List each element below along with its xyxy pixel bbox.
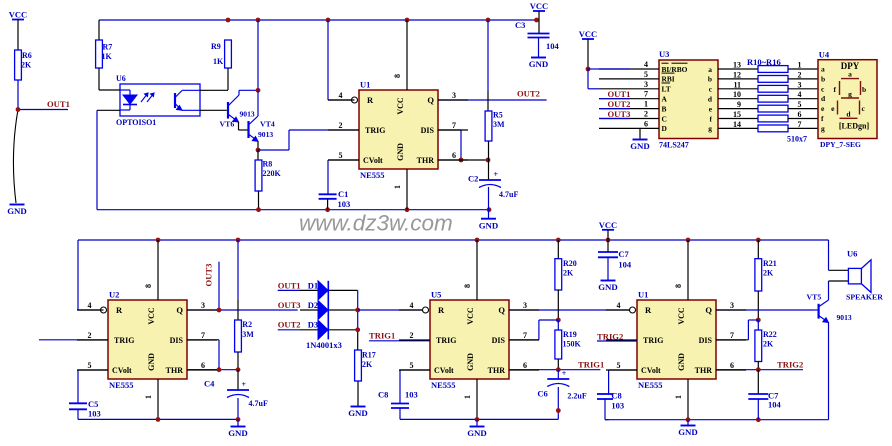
svg-text:C8: C8 [611,390,621,400]
svg-text:12: 12 [733,70,741,79]
svg-text:2K: 2K [763,269,774,278]
svg-text:7: 7 [730,331,734,340]
svg-text:D2: D2 [308,300,318,310]
svg-text:b: b [708,75,712,84]
svg-text:TRIG2: TRIG2 [777,359,803,369]
svg-text:+: + [494,170,499,179]
svg-text:OUT1: OUT1 [608,89,631,99]
svg-text:2: 2 [644,110,648,119]
svg-text:3: 3 [523,301,527,310]
svg-text:TRIG1: TRIG1 [369,331,395,341]
svg-text:VCC: VCC [147,307,156,325]
svg-text:2K: 2K [563,269,574,278]
svg-text:2: 2 [339,121,343,130]
svg-text:DIS: DIS [699,336,713,345]
svg-text:4: 4 [410,301,414,310]
svg-text:R: R [645,305,652,315]
svg-text:GND: GND [147,353,156,371]
svg-text:103: 103 [338,199,351,209]
svg-text:VT6: VT6 [220,120,235,129]
svg-text:7: 7 [644,90,648,99]
svg-text:5: 5 [644,70,648,79]
svg-text:A: A [662,95,668,104]
svg-text:10: 10 [733,90,741,99]
svg-text:5: 5 [88,361,92,370]
svg-text:R17: R17 [362,351,376,360]
svg-text:+: + [242,380,247,389]
svg-text:8: 8 [144,284,153,288]
svg-text:5: 5 [798,100,802,109]
svg-text:GND: GND [466,353,475,371]
svg-text:OPTOISO1: OPTOISO1 [116,118,156,127]
svg-text:510x7: 510x7 [787,135,807,144]
svg-text:3M: 3M [242,330,254,339]
svg-text:7: 7 [452,121,456,130]
svg-text:15: 15 [733,110,741,119]
svg-text:1: 1 [393,185,402,189]
svg-text:LT: LT [662,85,671,94]
svg-text:VCC: VCC [677,307,686,325]
svg-text:OUT2: OUT2 [278,320,301,330]
svg-text:THR: THR [166,366,184,375]
svg-text:1N4001x3: 1N4001x3 [306,340,342,350]
svg-text:7: 7 [798,120,802,129]
svg-text:2K: 2K [362,360,373,369]
svg-text:R22: R22 [763,330,777,339]
svg-text:DIS: DIS [421,126,435,135]
svg-text:TRIG1: TRIG1 [578,359,604,369]
svg-text:Q: Q [498,305,505,315]
svg-text:103: 103 [405,390,418,400]
svg-text:6: 6 [201,361,205,370]
svg-text:5: 5 [410,361,414,370]
svg-text:THR: THR [695,366,713,375]
svg-text:VCC: VCC [9,10,27,20]
svg-text:[LEDgn]: [LEDgn] [839,122,870,131]
svg-text:1: 1 [463,395,472,399]
svg-text:OUT1: OUT1 [47,99,70,109]
svg-text:R: R [367,95,374,105]
svg-text:Q: Q [427,95,434,105]
svg-text:R: R [438,305,445,315]
svg-text:C2: C2 [468,174,478,184]
svg-text:3: 3 [644,80,648,89]
svg-text:1K: 1K [102,52,113,61]
svg-text:D: D [662,124,667,133]
svg-text:R20: R20 [563,259,577,268]
svg-text:NE555: NE555 [638,380,663,390]
svg-text:OUT2: OUT2 [608,99,631,109]
svg-text:150K: 150K [563,340,582,349]
svg-text:OUT1: OUT1 [278,280,301,290]
svg-text:4: 4 [88,301,92,310]
svg-text:a: a [708,65,712,74]
svg-text:1: 1 [644,100,648,109]
svg-text:8: 8 [674,284,683,288]
svg-text:D1: D1 [308,280,318,290]
svg-text:R5: R5 [493,111,503,120]
svg-text:7: 7 [201,331,205,340]
svg-text:GND: GND [348,408,368,418]
svg-text:104: 104 [546,41,560,51]
svg-text:1: 1 [674,395,683,399]
svg-text:9013: 9013 [837,313,852,322]
svg-text:C8: C8 [378,390,388,400]
svg-text:THR: THR [417,156,435,165]
svg-text:C6: C6 [537,389,547,399]
svg-text:VCC: VCC [530,1,548,11]
svg-text:DIS: DIS [170,336,184,345]
svg-text:C5: C5 [88,399,98,409]
svg-text:4: 4 [339,91,343,100]
svg-text:U5: U5 [431,290,441,300]
svg-text:9013: 9013 [258,130,273,139]
svg-text:TRIG: TRIG [436,336,456,345]
svg-text:3: 3 [201,301,205,310]
svg-text:6: 6 [730,361,734,370]
svg-text:b: b [862,85,866,94]
svg-text:b: b [821,74,825,83]
svg-text:VCC: VCC [579,29,597,39]
svg-text:Q: Q [176,305,183,315]
svg-text:6: 6 [798,110,802,119]
svg-text:103: 103 [611,401,624,411]
svg-text:9013: 9013 [240,110,255,119]
svg-text:104: 104 [618,260,632,270]
svg-text:4.7uF: 4.7uF [499,190,518,199]
svg-text:OUT3: OUT3 [608,109,631,119]
svg-text:OUT2: OUT2 [517,89,540,99]
svg-text:5: 5 [617,361,621,370]
svg-text:GND: GND [630,141,650,151]
svg-text:TRIG: TRIG [365,126,385,135]
svg-text:VCC: VCC [396,97,405,115]
svg-text:13: 13 [733,61,741,70]
svg-text:www.dz3w.com: www.dz3w.com [299,211,453,236]
svg-text:2.2uF: 2.2uF [567,392,586,401]
svg-text:THR: THR [488,366,506,375]
svg-text:R19: R19 [563,330,577,339]
svg-text:GND: GND [598,282,618,292]
svg-text:6: 6 [523,361,527,370]
svg-text:6: 6 [452,151,456,160]
svg-text:+: + [562,369,567,378]
svg-text:2K: 2K [763,340,774,349]
svg-text:74LS247: 74LS247 [659,141,689,150]
svg-text:OUT3: OUT3 [204,264,214,287]
svg-text:R9: R9 [211,42,221,51]
svg-text:Q: Q [705,305,712,315]
svg-text:C1: C1 [338,189,348,199]
svg-text:GND: GND [7,206,27,216]
svg-text:7: 7 [523,331,527,340]
svg-text:GND: GND [396,143,405,161]
svg-text:C4: C4 [204,379,215,389]
svg-text:R8: R8 [263,160,273,169]
svg-text:C7: C7 [618,249,629,259]
svg-text:g: g [708,124,712,133]
svg-text:VT5: VT5 [807,293,822,302]
svg-text:R: R [116,305,123,315]
svg-text:TRIG: TRIG [114,336,134,345]
svg-text:5: 5 [339,151,343,160]
svg-text:220K: 220K [263,169,282,178]
svg-text:C3: C3 [515,20,525,30]
svg-text:a: a [848,69,852,78]
svg-text:GND: GND [479,220,499,230]
svg-text:4: 4 [798,90,802,99]
svg-text:R7: R7 [103,43,113,52]
svg-text:11: 11 [733,80,741,89]
svg-text:B: B [662,104,667,113]
svg-text:RBI: RBI [662,75,675,84]
svg-text:a: a [821,65,825,74]
svg-text:DIS: DIS [492,336,506,345]
svg-text:U6: U6 [847,249,857,259]
svg-text:GND: GND [228,428,248,438]
svg-text:GND: GND [677,353,686,371]
svg-text:R2: R2 [242,320,252,329]
svg-text:3: 3 [798,80,802,89]
svg-text:2: 2 [410,331,414,340]
svg-text:CVolt: CVolt [434,366,454,375]
svg-text:D3: D3 [308,320,318,330]
svg-text:4: 4 [617,301,621,310]
svg-text:R21: R21 [763,259,777,268]
svg-text:NE555: NE555 [360,170,385,180]
svg-text:DPY_7-SEG: DPY_7-SEG [820,140,861,149]
svg-text:TRIG: TRIG [643,336,663,345]
svg-text:1K: 1K [213,57,224,66]
svg-text:C: C [662,114,667,123]
svg-text:OUT3: OUT3 [278,300,301,310]
svg-text:104: 104 [768,400,782,410]
svg-text:U1: U1 [360,80,370,90]
svg-text:g: g [821,124,825,133]
svg-text:103: 103 [88,409,101,419]
svg-text:GND: GND [678,427,698,437]
svg-text:CVolt: CVolt [363,156,383,165]
svg-text:9: 9 [737,100,741,109]
svg-text:BI/RBO: BI/RBO [662,65,688,74]
svg-text:8: 8 [393,74,402,78]
svg-text:3: 3 [730,301,734,310]
svg-text:3M: 3M [493,120,505,129]
svg-text:8: 8 [463,284,472,288]
svg-text:U4: U4 [819,50,830,60]
svg-text:R10~R16: R10~R16 [747,57,781,67]
svg-text:1: 1 [144,395,153,399]
svg-text:GND: GND [529,59,549,69]
svg-text:VCC: VCC [599,220,617,230]
svg-text:1: 1 [798,61,802,70]
svg-text:4: 4 [644,60,648,69]
svg-text:U1: U1 [638,290,648,300]
svg-text:CVolt: CVolt [641,366,661,375]
svg-text:4.7uF: 4.7uF [249,399,268,408]
svg-text:2: 2 [88,331,92,340]
svg-text:SPEAKER: SPEAKER [846,293,883,302]
svg-text:NE555: NE555 [431,380,456,390]
svg-text:NE555: NE555 [109,380,134,390]
svg-text:R6: R6 [22,51,32,60]
svg-text:14: 14 [733,120,741,129]
svg-text:3: 3 [452,91,456,100]
svg-text:VT4: VT4 [260,120,275,129]
svg-text:CVolt: CVolt [112,366,132,375]
svg-text:2: 2 [798,70,802,79]
svg-text:6: 6 [644,119,648,128]
svg-text:U3: U3 [659,49,669,59]
svg-text:GND: GND [467,428,487,438]
svg-text:2K: 2K [21,61,32,70]
svg-text:VCC: VCC [466,307,475,325]
svg-text:U6: U6 [116,74,126,83]
svg-text:U2: U2 [109,290,119,300]
